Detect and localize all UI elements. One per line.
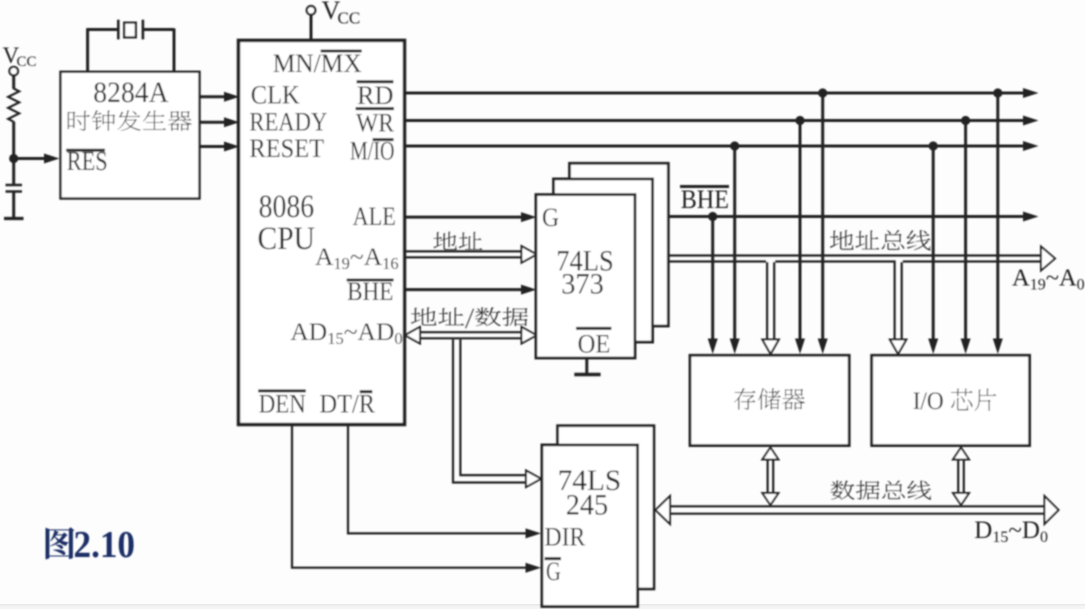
svg-text:M/IO: M/IO: [350, 137, 395, 166]
svg-text:RESET: RESET: [249, 134, 324, 163]
pin M/IO overline: [373, 138, 394, 141]
memory box: [690, 355, 849, 445]
svg-text:G: G: [542, 203, 559, 232]
pin BHE overline: [347, 279, 394, 282]
label 时钟发生器: [68, 110, 192, 131]
svg-text:G: G: [546, 557, 561, 586]
wire DT/R to DIR: [348, 425, 527, 534]
Vcc terminal CPU: [307, 6, 316, 15]
svg-text:245: 245: [566, 489, 609, 522]
svg-text:8086: 8086: [259, 189, 315, 225]
wire READY: [200, 121, 227, 124]
wire crystal left: [86, 28, 89, 71]
wire ALE to G: [405, 216, 523, 219]
node RES junction: [9, 154, 18, 163]
CPU U1 8086 box: [239, 40, 405, 424]
wire M/IO drop to IO: [932, 146, 935, 340]
node WR mem junction: [795, 116, 804, 125]
wire RES to 8284A: [14, 157, 45, 160]
pin WR overline: [356, 107, 395, 110]
resistor R1: [8, 89, 19, 122]
bus memory to data: [766, 458, 768, 495]
node RD mem junction: [818, 88, 827, 97]
bus AD branch to 245: [453, 339, 527, 482]
wire BHE bus: [668, 215, 1024, 218]
node M/IO io junction: [929, 141, 938, 150]
clock generator U2 8284A box: [61, 72, 200, 199]
ground 373: [585, 358, 588, 374]
node RD io junction: [993, 88, 1002, 97]
bus 地址 CPU to 373: [405, 250, 522, 252]
node BHE junction: [708, 212, 717, 221]
crystal X1: [117, 20, 120, 40]
node WR io junction: [961, 116, 970, 125]
wire M/IO drop to memory: [733, 146, 736, 340]
pin OE overline: [576, 327, 611, 330]
latch 74LS373 back box 2: [554, 179, 653, 342]
capacitor C1: [6, 184, 23, 186]
bus AD15-AD0: [420, 331, 522, 333]
svg-text:WR: WR: [356, 109, 395, 138]
svg-text:2.10: 2.10: [74, 524, 136, 566]
wire BHE drop to memory: [711, 217, 714, 341]
svg-text:BHE: BHE: [681, 185, 729, 214]
label 地址/数据: [411, 307, 528, 328]
IO chip box: [872, 355, 1030, 445]
wire M/IO bus: [405, 145, 1025, 148]
svg-text:DIR: DIR: [545, 523, 586, 552]
label BHE bus overline: [680, 185, 729, 188]
svg-text:RES: RES: [67, 146, 108, 176]
svg-text:READY: READY: [249, 108, 327, 137]
svg-text:AD15~AD0: AD15~AD0: [290, 317, 402, 348]
svg-text:DT/R: DT/R: [320, 389, 376, 418]
Vcc terminal left: [9, 67, 18, 76]
svg-text:ALE: ALE: [353, 202, 396, 231]
bus address main: [668, 254, 1041, 256]
svg-text:373: 373: [561, 267, 604, 300]
transceiver U4 74LS245 front box: [542, 445, 638, 607]
ground left: [4, 217, 24, 220]
wire crystal right: [143, 28, 174, 31]
wire RD drop to IO: [996, 93, 999, 340]
label 存储器: [734, 388, 805, 410]
bus data main: [668, 505, 1045, 507]
pin RES overline: [66, 149, 105, 152]
bus address drop to IO: [893, 262, 895, 340]
svg-text:I/O: I/O: [913, 388, 944, 415]
svg-text:CC: CC: [338, 9, 361, 28]
svg-text:CLK: CLK: [251, 80, 300, 109]
bus IO to data: [957, 458, 959, 495]
pin MN/MX overline: [321, 50, 362, 53]
svg-text:CPU: CPU: [258, 221, 316, 257]
label 地址总线: [830, 230, 931, 251]
wire WR drop to IO: [964, 121, 967, 341]
svg-text:8284A: 8284A: [93, 76, 169, 109]
label 芯片: [951, 389, 996, 411]
latch 74LS373 back box 3: [570, 163, 669, 326]
wire RESET: [200, 145, 227, 148]
pin DT/R overbar: [360, 390, 373, 393]
label 数据总线: [831, 481, 931, 500]
bus address drop to memory: [766, 262, 768, 340]
svg-text:A19~A0: A19~A0: [1012, 265, 1085, 294]
wire RD drop to memory: [821, 93, 824, 340]
svg-text:MN/MX: MN/MX: [273, 49, 362, 78]
pin G bar label: [545, 557, 562, 560]
wire DEN to G: [292, 425, 527, 568]
wire CLK: [200, 95, 227, 98]
transceiver 74LS245 back box: [558, 426, 654, 589]
wire Vcc to CPU: [310, 14, 313, 41]
label 图2.10: [46, 527, 75, 559]
wire Vcc to resistor: [12, 75, 15, 89]
wire capacitor to ground: [12, 192, 15, 219]
svg-text:D15~D0: D15~D0: [974, 517, 1048, 546]
latch U3 74LS373 front box: [536, 195, 635, 358]
svg-text:CC: CC: [17, 54, 37, 70]
wire RD bus: [405, 92, 1025, 95]
pin RD overline: [357, 80, 394, 83]
svg-text:DEN: DEN: [259, 389, 306, 418]
svg-text:RD: RD: [357, 81, 393, 110]
wire BHE to 373: [405, 288, 523, 291]
wire WR bus: [405, 119, 1025, 122]
pin DEN overline: [258, 389, 306, 392]
wire resistor to capacitor: [12, 122, 15, 186]
wire WR drop to memory: [799, 121, 802, 341]
svg-text:BHE: BHE: [347, 277, 393, 306]
node M/IO mem junction: [730, 141, 739, 150]
svg-text:OE: OE: [578, 329, 611, 358]
label 地址: [434, 232, 483, 250]
